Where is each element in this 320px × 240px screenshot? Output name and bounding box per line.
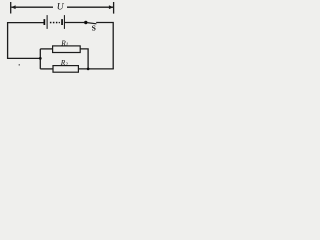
voltage dimension line left segment xyxy=(11,6,53,8)
wire R2 right lead to bottom right xyxy=(78,68,113,70)
svg-text:S: S xyxy=(92,24,96,33)
wire R2 left lead xyxy=(40,68,53,70)
resistor R2 body xyxy=(53,66,78,73)
switch S lever xyxy=(87,23,96,24)
wire top right (battery to switch) xyxy=(65,22,85,24)
battery cell 2 short plate xyxy=(61,19,63,25)
wire R1 right lead and drop xyxy=(80,49,88,69)
dimension arrowhead left xyxy=(11,5,15,9)
battery cell 1 short plate xyxy=(44,19,46,25)
battery cell 2 long plate xyxy=(64,15,65,29)
wire parallel bus left vertical xyxy=(39,49,41,69)
voltage dimension line right segment xyxy=(67,6,113,8)
junction dot left xyxy=(39,57,42,60)
battery cell 1 long plate xyxy=(47,15,48,29)
voltage dimension right bar xyxy=(113,2,115,14)
junction dot right xyxy=(87,68,90,71)
svg-text:U: U xyxy=(57,2,65,12)
switch S pivot dot xyxy=(84,21,87,24)
print speck xyxy=(19,64,20,66)
wire R1 left lead xyxy=(40,48,52,50)
wire switch to right corner and down xyxy=(96,23,113,69)
voltage dimension left bar xyxy=(10,2,12,14)
dimension arrowhead right xyxy=(109,5,113,9)
battery dots xyxy=(50,22,60,24)
wire top left xyxy=(8,23,44,59)
resistor R1 body xyxy=(53,46,81,53)
